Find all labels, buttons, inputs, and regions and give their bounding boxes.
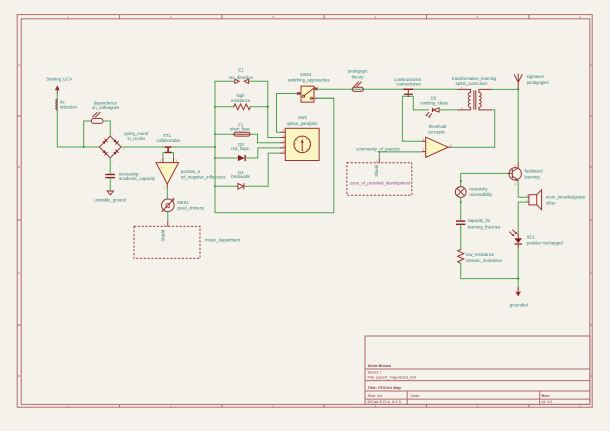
svg-text:B: B [590, 165, 592, 169]
svg-text:Title: PGCert Map: Title: PGCert Map [368, 385, 402, 390]
svg-text:inclusivity: inclusivity [470, 187, 489, 192]
svg-text:Rev:: Rev: [542, 393, 551, 398]
transistor Q1 facilitated_learning [508, 163, 522, 186]
wire [317, 97, 333, 99]
svg-text:A: A [18, 63, 20, 67]
svg-text:threshold: threshold [429, 124, 447, 129]
jumper pedagogic_theory [352, 82, 363, 91]
svg-text:positive+recharged: positive+recharged [527, 240, 564, 245]
svg-text:emitting_ideas: emitting_ideas [420, 101, 447, 106]
svg-text:Id: 1/1: Id: 1/1 [542, 399, 554, 404]
wire [215, 134, 280, 143]
wire [215, 153, 280, 186]
ground grounded [517, 288, 519, 293]
svg-text:Akira Brown: Akira Brown [368, 363, 392, 368]
jumper dependence_on_colleagues [91, 112, 103, 123]
wire [84, 121, 111, 147]
svg-text:learning_theories: learning_theories [468, 224, 501, 229]
svg-text:grounded: grounded [510, 303, 529, 308]
svg-text:music_department: music_department [205, 238, 241, 243]
svg-text:Shield: Shield [374, 164, 379, 176]
svg-text:accessibility: accessibility [470, 192, 494, 197]
svg-text:option_paralysis: option_paralysis [287, 121, 318, 126]
svg-text:facilitated: facilitated [525, 169, 544, 174]
frame column numbers bottom [67, 404, 581, 408]
node junction main/rail [214, 146, 216, 148]
svg-text:red_flags: red_flags [231, 146, 248, 151]
svg-text:concepts: concepts [428, 130, 445, 135]
antenna signature_pedagogies [514, 74, 522, 90]
svg-text:switching_approaches: switching_approaches [288, 78, 330, 83]
svg-text:in_circles: in_circles [127, 136, 145, 141]
title block [365, 336, 590, 404]
svg-text:Size: A4: Size: A4 [368, 393, 383, 398]
svg-text:induction: induction [60, 104, 78, 109]
wire [491, 89, 518, 147]
node junction [83, 146, 85, 148]
svg-text:short_fuse: short_fuse [230, 126, 250, 131]
svg-text:academic_capacity: academic_capacity [119, 176, 156, 181]
svg-text:SW1: SW1 [298, 115, 308, 120]
wire [379, 152, 422, 159]
svg-text:E1: E1 [238, 67, 244, 72]
svg-text:capacity_for: capacity_for [468, 218, 491, 223]
wire rail2 [268, 81, 280, 137]
capacitor constructivism_connectivism [403, 89, 413, 95]
svg-text:pedagogic: pedagogic [348, 69, 368, 74]
wire [164, 212, 168, 228]
node junction antenna [517, 88, 519, 90]
svg-text:connectivism: connectivism [396, 82, 421, 87]
wire [460, 225, 462, 249]
diode bridge going_round_in_circles [95, 133, 125, 163]
shield box zone_of_proximal_development [376, 159, 379, 163]
svg-text:-: - [172, 166, 173, 169]
transformer transformative_learning spiral_curriculum [458, 85, 491, 110]
svg-text:B: B [18, 165, 20, 169]
wire bottom loop [215, 98, 334, 213]
capacitor increasing_academic_capacity [105, 174, 115, 178]
svg-text:signature: signature [527, 74, 545, 79]
capacitor capacity_for_learning_theories [456, 220, 465, 225]
wire op-amp out [452, 146, 495, 148]
frame row ticks right [590, 116, 592, 325]
svg-text:good_ohmens: good_ohmens [177, 205, 204, 210]
wire [215, 148, 280, 158]
wire [109, 158, 111, 174]
frame column ticks bottom [120, 404, 529, 407]
wire cap branch [402, 95, 428, 141]
svg-text:learning: learning [525, 175, 541, 180]
svg-text:nd_negative_influences: nd_negative_influences [181, 175, 226, 180]
svg-text:going_round: going_round [124, 131, 148, 136]
svg-text:on_colleagues: on_colleagues [92, 105, 119, 110]
solar cell SC1 positive+recharged [510, 230, 522, 248]
rotary switch SW1 option_paralysis [280, 128, 319, 160]
ground unstable_ground [107, 191, 113, 195]
svg-text:C: C [282, 129, 284, 133]
node junction [407, 95, 409, 97]
spark gap E1 No_direction [235, 79, 249, 83]
wire [461, 263, 519, 278]
wire [460, 197, 462, 220]
svg-text:KiCad E.D.A. 8.0.5: KiCad E.D.A. 8.0.5 [368, 399, 402, 404]
wire [56, 94, 58, 148]
svg-text:Shield: Shield [161, 229, 166, 241]
svg-text:unstable_ground: unstable_ground [94, 198, 126, 203]
svg-text:A: A [590, 63, 592, 67]
wire left rail [214, 81, 216, 213]
svg-text:resistance: resistance [231, 98, 251, 103]
shield box music_department [134, 226, 200, 258]
wire [517, 248, 519, 279]
frame column ticks top [120, 15, 529, 19]
op-amp threshold_concepts [422, 137, 452, 157]
switch SW24 switching_approaches [297, 86, 317, 102]
diode D1 brickwalls [238, 184, 244, 190]
svg-text:spiral_curriculum: spiral_curriculum [455, 81, 488, 86]
crystal XT1 collaboration [165, 146, 172, 153]
svg-text:Starting_UCA: Starting_UCA [46, 76, 72, 81]
svg-text:more_knowledgeabe: more_knowledgeabe [546, 195, 586, 200]
wire collector column [517, 89, 519, 163]
speaker more_knowledgeabe_other [518, 181, 541, 235]
meter MES1 good_ohmens [162, 198, 175, 211]
wire [163, 153, 174, 159]
frame row letters right [590, 63, 593, 378]
resistor low_resistance intrinsic_motivation [458, 249, 464, 263]
wire [439, 109, 458, 111]
resistor high_resistance [234, 104, 251, 110]
node junctions on rail [214, 106, 216, 108]
wire [215, 106, 268, 108]
svg-text:low_resistance: low_resistance [466, 252, 495, 257]
lamp inclusivity_accessibility [455, 180, 466, 203]
svg-text:MES1: MES1 [177, 200, 189, 205]
wire [121, 146, 215, 148]
wire [215, 80, 268, 82]
wire main right [317, 88, 458, 90]
wire base [461, 173, 508, 186]
svg-text:No_direction: No_direction [229, 75, 253, 80]
svg-text:File: pgcert_map.kicad_sch: File: pgcert_map.kicad_sch [368, 374, 417, 379]
svg-text:-: - [95, 149, 96, 152]
svg-text:theory: theory [352, 74, 365, 79]
wire [163, 184, 167, 199]
inductor no_induction [56, 99, 57, 110]
wire [109, 178, 111, 191]
svg-text:-: - [428, 151, 429, 154]
wire SW24 to SW1 common [268, 94, 298, 138]
svg-text:zone_of_proximal_development: zone_of_proximal_development [350, 180, 411, 185]
op-amp positive_and_negative_influences [156, 158, 179, 184]
svg-text:SW24: SW24 [300, 72, 312, 77]
svg-text:Date:: Date: [411, 393, 421, 398]
svg-text:collaboration: collaboration [156, 138, 181, 143]
svg-text:brickwalls: brickwalls [231, 174, 249, 179]
svg-text:intrinsic_motivation: intrinsic_motivation [466, 258, 503, 263]
svg-text:other: other [546, 201, 556, 206]
svg-text:SC1: SC1 [527, 235, 536, 240]
frame row letters left [18, 63, 21, 378]
node Starting_UCA arrow [56, 86, 59, 93]
diode D3 red_flags [238, 155, 246, 161]
wire [57, 146, 99, 148]
node junction ground [517, 278, 519, 280]
svg-text:pedagogies: pedagogies [527, 80, 549, 85]
svg-text:community_of_practice: community_of_practice [356, 147, 400, 152]
svg-text:D2: D2 [431, 95, 437, 100]
frame row ticks left [17, 116, 21, 325]
fuse F1 short_fuse [234, 132, 250, 136]
LED D2 emitting_ideas [425, 108, 439, 118]
frame column numbers top [67, 15, 581, 19]
wire [517, 279, 519, 291]
svg-text:positive_a: positive_a [181, 169, 201, 174]
